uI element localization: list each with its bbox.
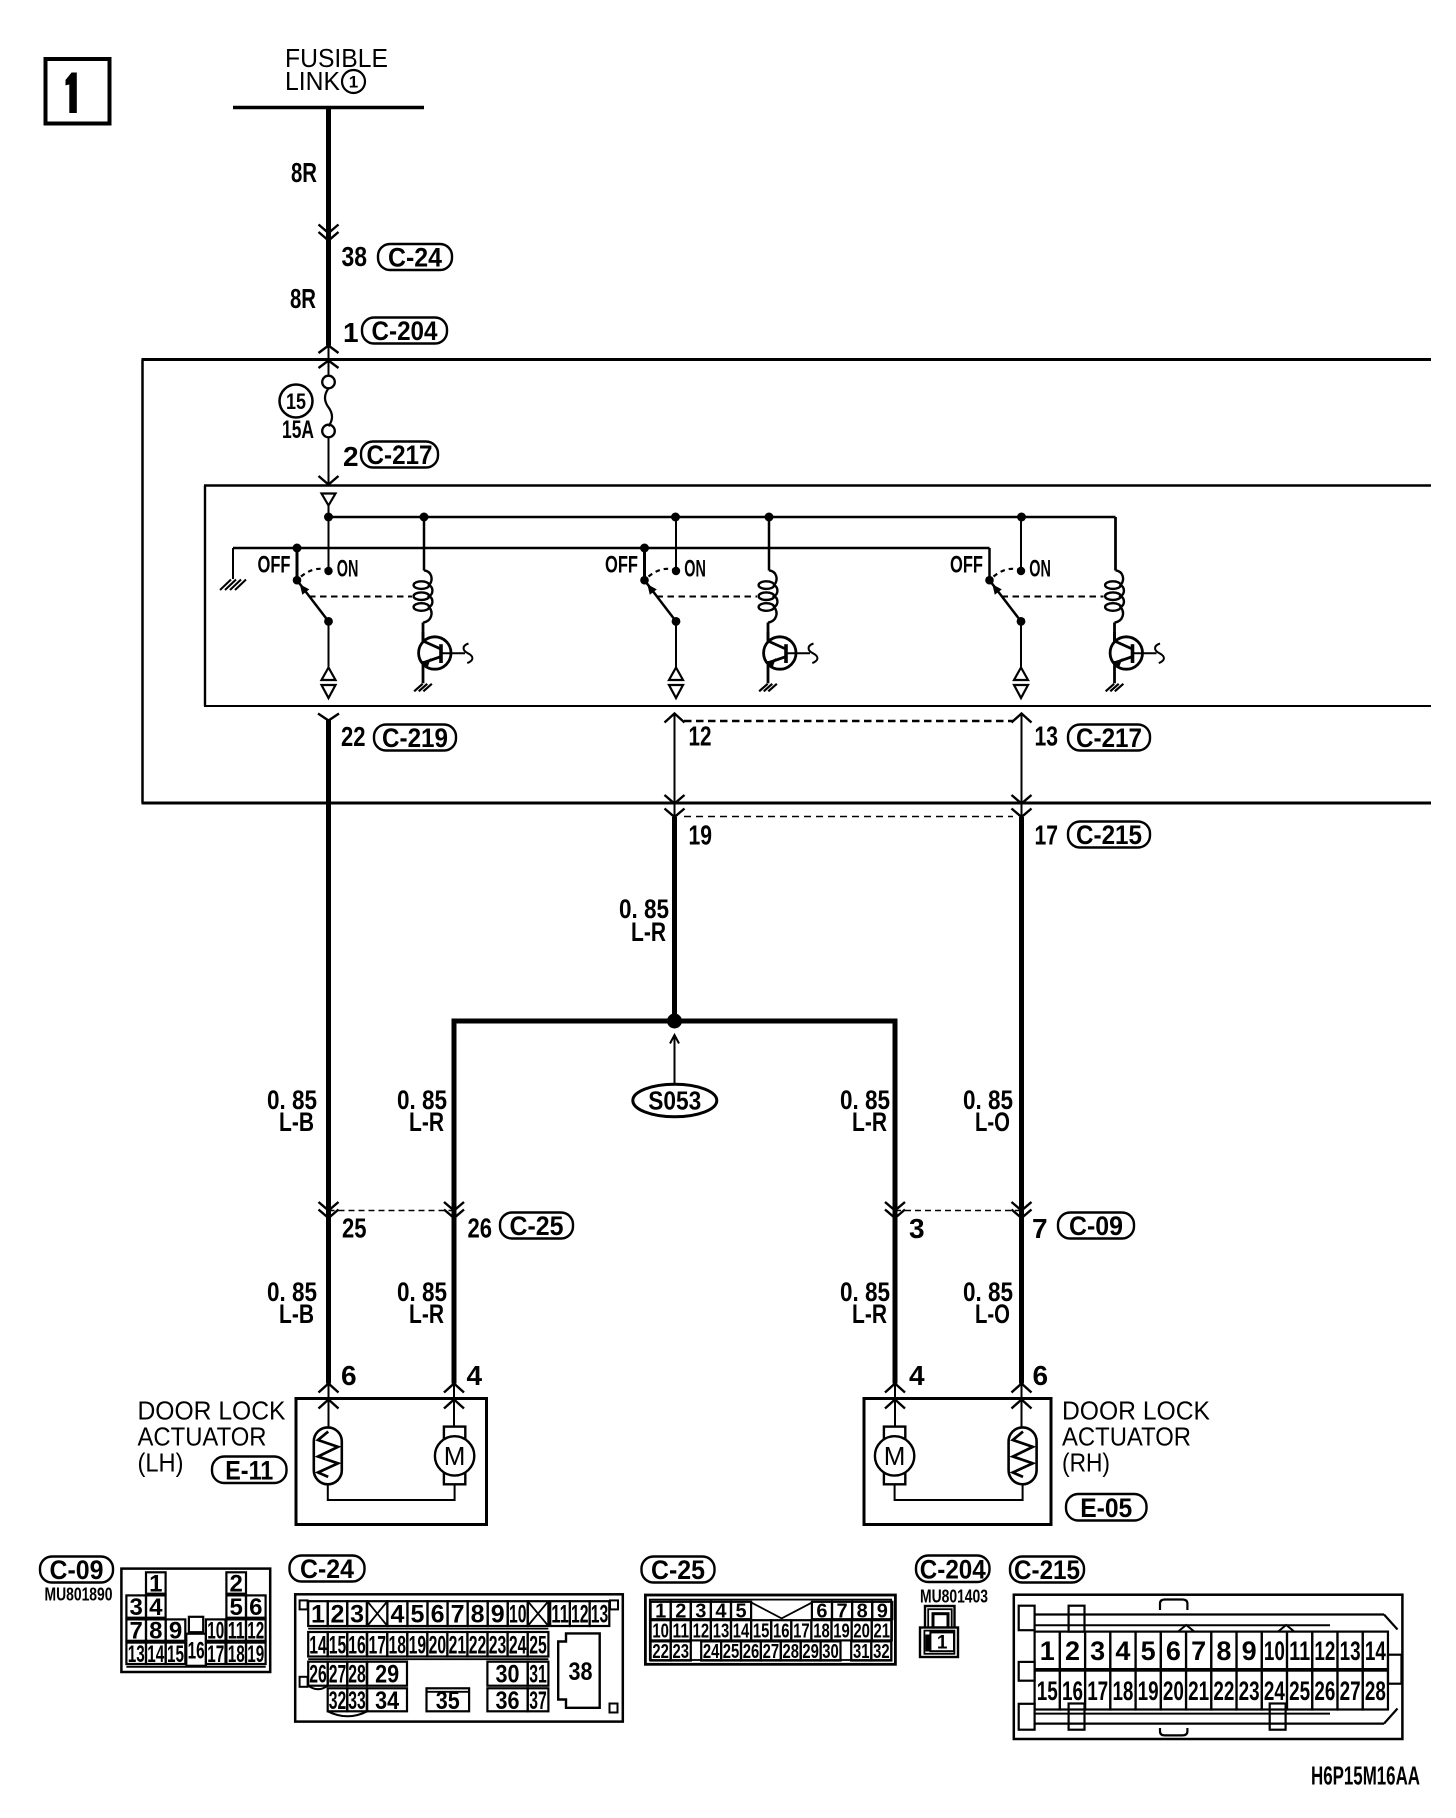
wire: switch1 output 22 (C-219) xyxy=(318,714,339,1384)
svg-text:ON: ON xyxy=(337,556,359,583)
connector arrow into junction block (pin 1) xyxy=(319,346,339,360)
svg-text:C-215: C-215 xyxy=(1014,1555,1080,1585)
arrow into switch box (pin 2) xyxy=(319,476,339,485)
actuator pin arrows RH (4,6) xyxy=(885,1384,1032,1428)
svg-text:18: 18 xyxy=(228,1641,245,1668)
svg-text:16: 16 xyxy=(188,1637,205,1664)
relay coil + transistor 1 xyxy=(414,517,473,691)
svg-text:17: 17 xyxy=(368,1631,386,1659)
svg-text:7: 7 xyxy=(451,1601,465,1629)
svg-text:3: 3 xyxy=(350,1601,364,1629)
svg-text:15: 15 xyxy=(753,1621,770,1643)
svg-text:16: 16 xyxy=(773,1621,790,1643)
junction block / ETACS outer box xyxy=(142,360,1432,804)
wire: switch2 output pin 12 xyxy=(665,714,685,818)
connector C-24 face view xyxy=(295,1594,623,1721)
svg-text:18: 18 xyxy=(1112,1676,1133,1706)
svg-text:MU801890: MU801890 xyxy=(45,1585,113,1605)
svg-text:11: 11 xyxy=(1289,1636,1310,1666)
chevrons where wires cross outer box bottom xyxy=(665,795,1032,817)
svg-text:(LH): (LH) xyxy=(138,1448,184,1478)
connector C-09 face view xyxy=(121,1569,270,1672)
connector C-25 title pill xyxy=(642,1557,715,1583)
pin 2 / connector C-217 reference xyxy=(343,440,438,472)
svg-text:8: 8 xyxy=(471,1601,485,1629)
connector C-215 face view xyxy=(1014,1595,1403,1739)
svg-text:L-O: L-O xyxy=(975,1107,1010,1137)
svg-text:19: 19 xyxy=(409,1631,427,1659)
wire label 0.85 L-O (right, upper) xyxy=(963,1085,1013,1137)
svg-text:C-24: C-24 xyxy=(300,1554,354,1584)
svg-text:C-215: C-215 xyxy=(1076,820,1142,850)
fuse 15 (15A) symbol xyxy=(322,376,335,484)
svg-text:17: 17 xyxy=(1087,1676,1108,1706)
svg-text:C-219: C-219 xyxy=(382,723,448,753)
pin 38 / connector C-24 reference xyxy=(342,241,453,273)
svg-text:8R: 8R xyxy=(290,283,316,314)
svg-text:15: 15 xyxy=(329,1631,347,1659)
svg-text:12: 12 xyxy=(693,1621,710,1643)
input connector triangle pair top xyxy=(322,494,336,518)
svg-text:1: 1 xyxy=(311,1601,325,1629)
svg-text:10: 10 xyxy=(1264,1636,1285,1666)
svg-text:19: 19 xyxy=(247,1641,264,1668)
mechanical link dashes switch3-coil3 xyxy=(1002,596,1104,598)
wire label 0.85 L-O (right, lower) xyxy=(963,1277,1013,1329)
svg-text:2: 2 xyxy=(343,441,359,472)
connector dashes 3-7 xyxy=(895,1210,1022,1212)
wire label 0.85 L-B (left, upper) xyxy=(267,1085,317,1137)
svg-text:L-B: L-B xyxy=(279,1299,314,1329)
door lock switch inner box xyxy=(204,486,1431,707)
svg-text:26: 26 xyxy=(309,1661,327,1689)
svg-text:21: 21 xyxy=(1188,1676,1209,1706)
svg-text:C-204: C-204 xyxy=(372,316,438,346)
svg-text:ON: ON xyxy=(1029,556,1051,583)
relay coil + transistor 2 xyxy=(759,517,818,691)
switch feed line (common rail) xyxy=(233,544,990,580)
wire label 0.85 L-R (third, upper) xyxy=(840,1085,890,1137)
RH actuator motor M xyxy=(875,1427,914,1485)
bus line (battery rail inside box) xyxy=(329,517,1116,570)
fusible link label xyxy=(285,43,388,96)
svg-text:H6P15M16AA: H6P15M16AA xyxy=(1311,1761,1420,1791)
DOOR LOCK ACTUATOR (RH) label xyxy=(1062,1396,1211,1478)
RH actuator internal wiring xyxy=(895,1484,1023,1500)
svg-text:26: 26 xyxy=(1314,1676,1335,1706)
svg-text:25: 25 xyxy=(723,1641,740,1663)
svg-text:12: 12 xyxy=(1314,1636,1335,1666)
svg-text:36: 36 xyxy=(496,1687,520,1715)
relay coil + transistor 3 xyxy=(1105,517,1164,691)
wire: switch3 output pin 13 xyxy=(1012,714,1032,818)
svg-text:28: 28 xyxy=(348,1661,366,1689)
svg-text:3: 3 xyxy=(1090,1636,1105,1666)
pin 13 / connector C-217 reference xyxy=(1035,721,1151,754)
svg-text:E-05: E-05 xyxy=(1080,1493,1132,1523)
door lock switch 3 xyxy=(950,517,1051,698)
svg-text:21: 21 xyxy=(449,1631,467,1659)
connector C-215 title pill xyxy=(1010,1557,1084,1583)
svg-text:17: 17 xyxy=(793,1621,810,1643)
wire label 0.85 L-B (left, lower) xyxy=(267,1277,317,1329)
E-11 connector reference xyxy=(212,1457,287,1484)
svg-text:1: 1 xyxy=(343,317,359,348)
svg-text:LINK: LINK xyxy=(285,66,341,96)
DOOR LOCK ACTUATOR (LH) label xyxy=(138,1396,287,1478)
svg-text:C-09: C-09 xyxy=(1069,1211,1123,1241)
svg-text:33: 33 xyxy=(348,1687,366,1715)
svg-text:12: 12 xyxy=(689,721,712,752)
svg-text:19: 19 xyxy=(833,1621,850,1643)
svg-text:17: 17 xyxy=(207,1641,224,1668)
door lock switch 2 xyxy=(605,517,706,698)
door lock switch 1 (driver) xyxy=(258,517,359,698)
svg-text:16: 16 xyxy=(1062,1676,1083,1706)
svg-text:M: M xyxy=(444,1441,466,1471)
svg-text:C-217: C-217 xyxy=(1076,723,1142,753)
pin 7 / connector C-09 reference xyxy=(1032,1211,1134,1244)
connector dashes between pins 19 and 17 (C-215) xyxy=(684,816,1013,818)
svg-text:24: 24 xyxy=(509,1631,527,1659)
svg-text:4: 4 xyxy=(390,1601,404,1629)
svg-text:C-217: C-217 xyxy=(367,440,433,470)
svg-text:15: 15 xyxy=(1037,1676,1058,1706)
svg-text:26: 26 xyxy=(468,1213,493,1244)
connector C-25 face view xyxy=(645,1595,895,1664)
svg-text:24: 24 xyxy=(703,1641,720,1663)
svg-text:23: 23 xyxy=(489,1631,507,1659)
svg-text:L-R: L-R xyxy=(409,1107,444,1137)
svg-text:29: 29 xyxy=(802,1641,819,1663)
svg-text:18: 18 xyxy=(389,1631,407,1659)
svg-text:25: 25 xyxy=(1289,1676,1310,1706)
svg-text:11: 11 xyxy=(551,1601,569,1629)
svg-text:19: 19 xyxy=(689,820,713,851)
svg-text:27: 27 xyxy=(763,1641,780,1663)
svg-text:E-11: E-11 xyxy=(225,1455,273,1485)
svg-text:27: 27 xyxy=(329,1661,347,1689)
svg-text:13: 13 xyxy=(1035,721,1059,752)
svg-text:5: 5 xyxy=(1141,1636,1156,1666)
svg-text:C-25: C-25 xyxy=(510,1211,564,1241)
svg-text:31: 31 xyxy=(853,1641,870,1663)
ground at feed line left end xyxy=(220,548,246,590)
svg-text:29: 29 xyxy=(375,1661,399,1689)
svg-text:3: 3 xyxy=(909,1213,925,1244)
fusible link bus bar xyxy=(233,106,424,110)
wire size label 0.85 L-R (center) xyxy=(619,894,669,947)
svg-text:12: 12 xyxy=(571,1601,589,1629)
svg-text:21: 21 xyxy=(874,1621,891,1643)
svg-text:22: 22 xyxy=(341,721,366,752)
svg-text:34: 34 xyxy=(375,1687,399,1715)
svg-text:23: 23 xyxy=(673,1641,690,1663)
svg-text:4: 4 xyxy=(467,1360,483,1391)
bus junction dots xyxy=(324,513,1026,522)
mechanical link dashes switch1-coil1 xyxy=(309,596,412,598)
svg-text:31: 31 xyxy=(529,1661,547,1689)
E-05 connector reference xyxy=(1066,1494,1147,1521)
actuator pin arrows LH (6,4) xyxy=(319,1384,465,1428)
pin 26 / connector C-25 reference xyxy=(468,1211,574,1243)
connector dashes between pins 12 and 13 xyxy=(684,720,1013,723)
svg-text:10: 10 xyxy=(652,1621,669,1643)
door lock actuator RH box E-05 xyxy=(864,1399,1051,1525)
splice junction dot xyxy=(667,1014,682,1029)
connector C-204 title pill xyxy=(916,1556,990,1583)
svg-text:L-B: L-B xyxy=(279,1107,314,1137)
svg-text:L-R: L-R xyxy=(409,1299,444,1329)
svg-text:ON: ON xyxy=(684,556,706,583)
wire: center feed to splice (0.85 L-R) xyxy=(672,817,677,1021)
svg-text:L-O: L-O xyxy=(975,1299,1010,1329)
svg-text:M: M xyxy=(884,1441,906,1471)
LH actuator resistor/solenoid xyxy=(314,1427,342,1484)
RH actuator resistor/solenoid xyxy=(1009,1427,1037,1484)
svg-text:MU801403: MU801403 xyxy=(920,1587,988,1607)
svg-text:20: 20 xyxy=(853,1621,870,1643)
wire: battery feed 8R (upper segment) xyxy=(326,108,331,346)
svg-text:38: 38 xyxy=(569,1658,593,1686)
svg-text:2: 2 xyxy=(1065,1636,1080,1666)
svg-text:14: 14 xyxy=(1365,1636,1386,1666)
svg-text:15: 15 xyxy=(167,1641,184,1668)
svg-text:13: 13 xyxy=(713,1621,730,1643)
svg-text:9: 9 xyxy=(1242,1636,1257,1666)
svg-text:15: 15 xyxy=(286,389,306,414)
fuse number circled 15 xyxy=(280,385,313,418)
svg-text:30: 30 xyxy=(822,1641,839,1663)
svg-text:32: 32 xyxy=(329,1687,347,1715)
connector pass-through chevron at C-24 xyxy=(319,225,339,241)
svg-text:30: 30 xyxy=(496,1661,520,1689)
svg-text:(RH): (RH) xyxy=(1062,1448,1110,1478)
svg-text:8R: 8R xyxy=(291,157,317,188)
svg-text:1: 1 xyxy=(1040,1636,1055,1666)
svg-text:25: 25 xyxy=(342,1213,367,1244)
svg-text:6: 6 xyxy=(1033,1360,1049,1391)
svg-text:2: 2 xyxy=(330,1601,344,1629)
svg-text:C-204: C-204 xyxy=(920,1554,986,1584)
svg-text:13: 13 xyxy=(1340,1636,1361,1666)
svg-text:26: 26 xyxy=(743,1641,760,1663)
svg-text:22: 22 xyxy=(1213,1676,1234,1706)
svg-text:C-09: C-09 xyxy=(50,1555,104,1585)
svg-text:6: 6 xyxy=(341,1360,357,1391)
wire label 0.85 L-R (third, lower) xyxy=(840,1277,890,1329)
svg-text:1: 1 xyxy=(349,73,358,92)
wire label 0.85 L-R (second, upper) xyxy=(397,1085,447,1137)
svg-text:13: 13 xyxy=(591,1601,609,1629)
svg-text:20: 20 xyxy=(429,1631,447,1659)
splice S053 reference xyxy=(633,1035,717,1117)
svg-text:OFF: OFF xyxy=(605,552,638,579)
svg-text:24: 24 xyxy=(1264,1676,1285,1706)
mechanical link dashes switch2-coil2 xyxy=(657,596,758,598)
svg-text:10: 10 xyxy=(509,1601,527,1629)
svg-text:5: 5 xyxy=(411,1601,425,1629)
svg-text:7: 7 xyxy=(1032,1213,1048,1244)
connector chevrons pins 25/26 (C-25) xyxy=(319,1202,465,1218)
arrow below outer box top edge xyxy=(319,361,339,376)
door lock actuator LH box E-11 xyxy=(296,1399,487,1525)
svg-text:19: 19 xyxy=(1138,1676,1159,1706)
svg-text:23: 23 xyxy=(1239,1676,1260,1706)
svg-text:6: 6 xyxy=(431,1601,445,1629)
svg-text:6: 6 xyxy=(1166,1636,1181,1666)
svg-text:11: 11 xyxy=(673,1621,690,1643)
svg-text:32: 32 xyxy=(873,1641,890,1663)
wire label 0.85 L-R (second, lower) xyxy=(397,1277,447,1329)
connector C-09 title pill xyxy=(40,1557,113,1583)
connector chevrons pins 3/7 (C-09) xyxy=(885,1202,1032,1218)
svg-text:4: 4 xyxy=(1115,1636,1130,1666)
svg-text:17: 17 xyxy=(1035,820,1059,851)
svg-text:14: 14 xyxy=(147,1641,164,1668)
svg-text:1: 1 xyxy=(937,1633,948,1654)
connector C-24 title pill xyxy=(290,1556,365,1582)
svg-text:OFF: OFF xyxy=(258,552,291,579)
splice horizontal wire xyxy=(454,1021,895,1384)
svg-text:22: 22 xyxy=(652,1641,669,1663)
LH actuator internal wiring xyxy=(328,1484,455,1500)
svg-text:28: 28 xyxy=(1365,1676,1386,1706)
svg-text:L-R: L-R xyxy=(852,1299,887,1329)
svg-text:25: 25 xyxy=(529,1631,547,1659)
svg-text:13: 13 xyxy=(128,1641,145,1668)
svg-text:7: 7 xyxy=(1191,1636,1206,1666)
LH actuator motor M xyxy=(435,1427,474,1485)
svg-text:18: 18 xyxy=(813,1621,830,1643)
svg-text:OFF: OFF xyxy=(950,552,983,579)
connector C-204 face view xyxy=(920,1606,958,1657)
svg-text:15A: 15A xyxy=(282,416,314,444)
svg-text:4: 4 xyxy=(909,1360,925,1391)
pin 17 / connector C-215 reference xyxy=(1035,820,1151,851)
svg-text:38: 38 xyxy=(342,241,368,272)
wire: switch3 output to RH actuator (0.85 L-O) xyxy=(1019,817,1024,1384)
svg-text:16: 16 xyxy=(348,1631,366,1659)
svg-text:28: 28 xyxy=(783,1641,800,1663)
svg-text:14: 14 xyxy=(309,1631,327,1659)
pin 22 / connector C-219 reference xyxy=(341,721,456,753)
svg-text:8: 8 xyxy=(1216,1636,1231,1666)
svg-text:C-24: C-24 xyxy=(388,243,442,273)
svg-text:S053: S053 xyxy=(648,1086,701,1116)
page number box 1 xyxy=(46,59,110,124)
svg-text:37: 37 xyxy=(529,1687,547,1715)
svg-text:9: 9 xyxy=(491,1601,505,1629)
svg-text:20: 20 xyxy=(1163,1676,1184,1706)
svg-text:C-25: C-25 xyxy=(651,1555,705,1585)
svg-text:L-R: L-R xyxy=(631,917,666,947)
svg-text:27: 27 xyxy=(1340,1676,1361,1706)
svg-text:L-R: L-R xyxy=(852,1107,887,1137)
svg-text:22: 22 xyxy=(469,1631,487,1659)
connector dashes 25-26 xyxy=(329,1210,455,1212)
pin 1 / connector C-204 reference xyxy=(343,316,447,348)
svg-text:14: 14 xyxy=(733,1621,750,1643)
